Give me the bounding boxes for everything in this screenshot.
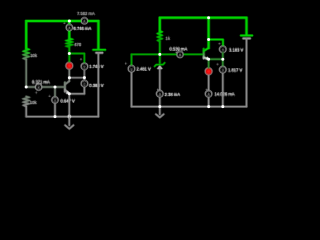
wire: top rail right circuit (160, 18, 247, 35)
ammeter A6 (14.026 mA) (205, 88, 234, 106)
wire: base wire (26, 86, 65, 88)
node: emitter junction Q1 (68, 92, 71, 95)
voltmeter V5 (3.183 V) (218, 42, 243, 59)
wire: tap to V5 (209, 40, 223, 46)
wire: collector tap (junction to collector column) (69, 77, 84, 79)
wire: emitter to LED2 (208, 59, 210, 62)
node: emitter junction Q2 (207, 58, 210, 61)
wire: LED cathode to collector (68, 69, 70, 81)
node: divider junction (25, 86, 28, 89)
node: LED anode junction (68, 52, 71, 55)
ammeter A1 (7.582 mA) (77, 11, 95, 24)
wire: emitter to bottom rail (68, 94, 70, 117)
ammeter A4 (0.371 mA) (32, 80, 50, 96)
transistor Q1 (65, 81, 69, 94)
node: base tap junction (54, 86, 57, 89)
ammeter A5 (2.38 mA) (157, 88, 181, 106)
wire: LED node to voltmeter V1 (69, 54, 84, 64)
zener diode D2 (155, 63, 165, 91)
node: collector junction on rail (207, 16, 210, 19)
node: V6-rail junction (221, 105, 224, 108)
ground (right) (156, 107, 164, 118)
resistor R1 10k (24, 49, 38, 88)
wire: emitter row right (209, 58, 223, 60)
wire: middle branch top (68, 21, 70, 39)
wire: R3 to LED node (68, 47, 70, 62)
resistor R2 10k (24, 97, 38, 117)
node: V5 tap junction (207, 38, 210, 41)
voltmeter V6 (1.817 V) (217, 59, 243, 106)
node: zener junction (158, 53, 161, 56)
node: collector column junction (68, 76, 71, 79)
wire: R4 to zener node (159, 42, 161, 63)
LED D3 (red, lit) (205, 62, 212, 74)
node: V5/V6 junction (221, 58, 224, 61)
resistor R4 1k (158, 31, 171, 42)
wire: V4 drop (131, 54, 133, 65)
wire: LED2 to A6 (208, 75, 210, 91)
wire: node row (132, 53, 204, 55)
voltmeter V2 (0.383 V) (81, 80, 104, 88)
wire: collector column (208, 18, 210, 48)
wire: top rail left circuit (26, 21, 98, 49)
LED D1 (red, lit) (66, 62, 73, 69)
wire: emitter row (69, 93, 84, 95)
junction dots layer (25, 16, 225, 118)
transistor Q2 (204, 48, 209, 60)
node: ground junction (158, 105, 161, 108)
node: rail dots (54, 115, 57, 118)
ammeter A3 (0.539 mA) (170, 46, 188, 57)
wire: V1 down to collector-tap junction and V2 (83, 70, 85, 81)
wire: bottom rail right circuit (132, 106, 247, 108)
wire: V2 down to emitter row (83, 87, 85, 94)
voltmeter V1 (1.746 V) (80, 58, 104, 70)
ground (left) (65, 117, 73, 129)
battery B2 (241, 36, 252, 107)
node: A6-rail junction (207, 105, 210, 108)
ammeter A2 (6.746 mA) (63, 21, 91, 30)
voltmeter V4 (2.481 V) (125, 62, 151, 107)
battery B1 (93, 50, 105, 117)
resistor R3 470 (67, 39, 82, 48)
node: top rail junction (68, 20, 71, 23)
wire: bottom rail left circuit (26, 116, 98, 118)
voltmeter V3 (0.647 V) (49, 87, 75, 117)
node: V1/V2 collector-tap junction (83, 76, 86, 79)
